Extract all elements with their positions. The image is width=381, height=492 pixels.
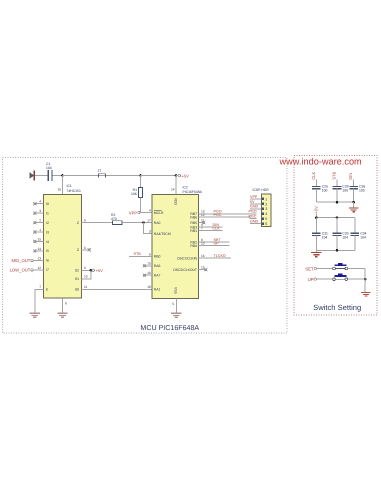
svg-text:12: 12 (201, 213, 205, 217)
wire +5V to top rail (315, 214, 317, 218)
svg-text:104: 104 (360, 236, 366, 240)
svg-text:R1: R1 (133, 188, 137, 192)
svg-text:12: 12 (37, 266, 41, 270)
svg-text:RB5: RB5 (190, 221, 197, 225)
IC1 input pin I4 stub + no-connect (33, 237, 43, 243)
svg-text:RB6: RB6 (190, 216, 197, 220)
svg-text:5: 5 (265, 217, 267, 221)
wire R2 to PIC RA0 node (122, 222, 152, 224)
power terminal VCC arrow (30, 171, 35, 181)
svg-text:MCLR: MCLR (154, 211, 164, 215)
svg-text:VPP: VPP (129, 210, 138, 215)
svg-text:I6: I6 (46, 259, 49, 263)
svg-text:ICSP HDR: ICSP HDR (253, 188, 270, 192)
svg-text:I1: I1 (46, 211, 49, 215)
svg-text:VPP: VPP (250, 195, 258, 199)
wire SW1 to right bus (348, 268, 366, 270)
resistor R2 (111, 213, 122, 224)
svg-text:S2: S2 (75, 269, 79, 273)
svg-text:+5V: +5V (313, 206, 318, 214)
svg-text:11: 11 (84, 285, 88, 289)
decoupling top rail (316, 217, 355, 219)
svg-text:RB0: RB0 (154, 255, 161, 259)
svg-text:7: 7 (39, 285, 41, 289)
svg-text:104: 104 (342, 236, 348, 240)
svg-text:14: 14 (37, 247, 41, 251)
wire IC1 pin16 vertical (62, 176, 64, 195)
svg-text:J1: J1 (98, 168, 102, 172)
wire C26 to rail (315, 189, 317, 203)
ground right box bottom (361, 292, 371, 296)
wire IC1 Z to R2 (81, 222, 112, 224)
node junction above IC1 pin16 (61, 174, 64, 177)
switch-setting box dotted border (294, 156, 377, 316)
svg-text:RA0: RA0 (154, 221, 161, 225)
ground right box mid (311, 252, 321, 256)
node junction on rail (336, 201, 339, 204)
svg-text:104: 104 (322, 236, 328, 240)
svg-text:5: 5 (172, 302, 174, 306)
PIC pin OSC2 stub + no-connect (199, 266, 208, 272)
wire rail to ground (353, 202, 355, 207)
svg-text:RA4/T0CKI: RA4/T0CKI (154, 232, 171, 236)
wire bottom rail to ground (315, 250, 317, 252)
svg-text:5: 5 (84, 219, 86, 223)
wire IC1 S0 to PIC RA1 (81, 288, 152, 290)
svg-text:PGC: PGC (214, 213, 222, 217)
svg-text:74HC151: 74HC151 (67, 189, 81, 193)
terminal UP (308, 277, 333, 282)
svg-text:4: 4 (39, 200, 41, 204)
svg-text:RA6: RA6 (154, 264, 161, 268)
ground under PIC pin5 (171, 313, 181, 317)
svg-text:100: 100 (359, 189, 365, 193)
svg-text:2: 2 (39, 219, 41, 223)
wire DIN to C36 (353, 180, 355, 187)
ground under E wire (30, 313, 40, 317)
wire IC1 pin8 to ground (63, 298, 68, 313)
svg-text:MCU PIC16F648A: MCU PIC16F648A (140, 324, 199, 332)
svg-text:3: 3 (149, 230, 151, 234)
svg-text:RB4: RB4 (190, 244, 197, 248)
svg-text:Switch Setting: Switch Setting (313, 303, 361, 312)
node junction buttons bus (364, 278, 367, 281)
svg-text:S0: S0 (75, 288, 79, 292)
svg-text:Z: Z (77, 221, 79, 225)
wire R1 to VPP node (141, 198, 152, 213)
svg-text:10: 10 (201, 242, 205, 246)
capacitor C28 (333, 185, 349, 193)
svg-text:IC2: IC2 (183, 186, 188, 190)
push button SW1 SET (333, 263, 348, 270)
svg-text:STB: STB (331, 171, 336, 179)
svg-text:5V: 5V (250, 200, 255, 204)
svg-text:SET: SET (305, 266, 314, 271)
terminal SET (305, 266, 333, 271)
wire C36 to rail (353, 189, 355, 203)
node junction above R1 (139, 174, 142, 177)
svg-text:IC1: IC1 (67, 184, 72, 188)
node junction rail right (352, 201, 355, 204)
wire PIC RB4 UP stub (199, 242, 230, 246)
svg-text:104: 104 (46, 166, 52, 170)
svg-text:PGC: PGC (249, 215, 257, 219)
wire PIC RB1 CLK stub (199, 227, 223, 231)
connector row3 GND stub (250, 205, 262, 209)
IC1 pin Z-bar stub + no-connect (81, 246, 91, 252)
svg-text:15: 15 (37, 237, 41, 241)
svg-text:RB1: RB1 (190, 229, 197, 233)
wire VDD vertical to PIC pin14 (175, 176, 177, 195)
wire PIC pin5 VSS to ground (172, 299, 176, 313)
svg-text:GND: GND (250, 220, 259, 224)
node junction top rail left (315, 216, 318, 219)
IC1 input pin I0 stub + no-connect (33, 200, 43, 206)
IC1 input pin I1 stub + no-connect (33, 209, 43, 215)
capacitor C34 (351, 218, 367, 251)
svg-text:PIC16F648A: PIC16F648A (183, 190, 203, 194)
wire PIC RB7 PGD to connector row4 (199, 210, 257, 214)
svg-text:2: 2 (265, 202, 267, 206)
PIC pin RA7 stub + no-connect (143, 271, 152, 277)
svg-text:15: 15 (147, 262, 151, 266)
main schematic dotted border (3, 158, 288, 334)
capacitor C36 (349, 185, 365, 193)
svg-text:VSS: VSS (174, 287, 178, 295)
wire SW2 to right bus (348, 278, 366, 280)
svg-text:MID_OUT: MID_OUT (11, 258, 30, 263)
terminal MID_OUT to IC1 pin I6 (11, 256, 43, 263)
wire bus down to ground (364, 269, 366, 292)
svg-text:100: 100 (342, 189, 348, 193)
svg-text:16: 16 (147, 271, 151, 275)
svg-text:S1: S1 (75, 277, 79, 281)
svg-text:100: 100 (322, 189, 328, 193)
svg-text:7: 7 (201, 227, 203, 231)
svg-text:+5V: +5V (182, 173, 190, 178)
wire IC1 pin E to ground (35, 285, 44, 313)
svg-text:OSC1/CLKIN: OSC1/CLKIN (177, 257, 198, 261)
+5V terminal circle (178, 174, 180, 176)
svg-text:10K: 10K (131, 192, 138, 196)
wire C28 to rail (336, 189, 338, 203)
wire PIC RB6 PGC to connector row5 (199, 213, 257, 219)
wire PIC RB2 SET stub (199, 238, 230, 242)
svg-text:DIN: DIN (348, 173, 353, 180)
resistor R1 (131, 187, 143, 197)
svg-text:14: 14 (171, 187, 175, 191)
svg-text:1: 1 (39, 228, 41, 232)
svg-text:VDD: VDD (174, 198, 178, 206)
VPP terminal circle (138, 211, 140, 213)
wire junction to +5V corner (141, 175, 176, 177)
connector J1 ICSP header body (253, 188, 271, 227)
svg-text:PGD: PGD (249, 210, 257, 214)
svg-text:16: 16 (201, 254, 205, 258)
node junction at RA0 (142, 221, 145, 224)
wire PIC OSC1 T1CKO stub (199, 254, 231, 258)
node junction top rail mid (336, 216, 339, 219)
svg-text:RA1: RA1 (154, 288, 161, 292)
connector row2 VDD stub (250, 200, 262, 204)
wire stub to +5V terminal (176, 175, 178, 177)
svg-text:11: 11 (201, 219, 205, 223)
svg-text:UP: UP (308, 277, 314, 282)
wire node down to RA4 pin (144, 223, 153, 234)
IC1 input pin I3 stub + no-connect (33, 228, 43, 234)
svg-text:10: 10 (84, 275, 88, 279)
decoupling bottom rail (316, 249, 355, 251)
svg-text:I2: I2 (46, 221, 49, 225)
svg-text:I5: I5 (46, 249, 49, 253)
wire rail to R1 vertical (140, 176, 142, 188)
+5V terminal circle at S2 (92, 269, 94, 271)
svg-text:470: 470 (111, 217, 117, 221)
op IC1 74HC151 body (44, 184, 82, 298)
svg-text:3: 3 (265, 207, 267, 211)
svg-text:6: 6 (265, 222, 267, 226)
svg-text:17: 17 (147, 219, 151, 223)
PIC inside right labels (173, 212, 197, 272)
PIC inside left labels (154, 211, 171, 292)
svg-text:www.indo-ware.com: www.indo-ware.com (279, 156, 363, 166)
svg-text:15: 15 (201, 266, 205, 270)
node junction S2/S1 (90, 269, 93, 272)
svg-text:STB: STB (134, 252, 142, 256)
svg-text:4: 4 (265, 212, 267, 216)
IC1 inside pin labels (46, 202, 79, 292)
svg-text:CLK: CLK (213, 227, 221, 231)
wire PIC RB3 DIN stub (199, 223, 223, 227)
connector pin rows (265, 197, 267, 226)
svg-text:1: 1 (265, 197, 267, 201)
PIC pin RA6 stub + no-connect (143, 262, 152, 268)
jumper J1 (98, 168, 106, 177)
node junction at VDD drop (175, 174, 178, 177)
wire CLK to C26 (315, 180, 317, 187)
svg-text:9: 9 (84, 266, 86, 270)
svg-text:UP: UP (214, 242, 220, 246)
MCLR overbar (154, 210, 162, 212)
push button SW2 UP (333, 274, 348, 281)
svg-text:3: 3 (39, 209, 41, 213)
svg-text:T1CKO: T1CKO (214, 254, 226, 258)
ground right box top (349, 208, 359, 212)
wire C1 to junction (53, 175, 63, 177)
wire STB to C28 (336, 180, 338, 187)
node junction bottom rail mid (336, 249, 339, 252)
capacitor C26 (312, 185, 328, 193)
wire IC1 S2 to +5V terminal (81, 269, 91, 271)
IC1 input pin I2 stub + no-connect (33, 219, 43, 225)
svg-text:I0: I0 (46, 202, 49, 206)
svg-text:16: 16 (57, 187, 61, 191)
wire PIC RB0 STB stub (129, 252, 152, 256)
capacitor C33 (333, 218, 349, 251)
cap ground rail (316, 201, 353, 203)
svg-text:4: 4 (149, 208, 151, 212)
svg-text:CLK: CLK (311, 171, 316, 179)
svg-text:I3: I3 (46, 230, 49, 234)
svg-text:+5V: +5V (96, 268, 104, 273)
wire IC1 S1 up to S2 net (81, 270, 90, 279)
svg-text:I4: I4 (46, 240, 49, 244)
svg-text:LOW_OUT: LOW_OUT (10, 268, 31, 273)
terminal LOW_OUT to IC1 pin I7 (10, 266, 44, 273)
wire rail from VCC to C1 (35, 175, 48, 177)
svg-text:OSC2/CLKOUT: OSC2/CLKOUT (173, 268, 197, 272)
op IC2 PIC16F648A body (152, 186, 203, 299)
connector row1 VPP stub (250, 195, 262, 199)
svg-text:I7: I7 (46, 268, 49, 272)
PIC pin RB5 stub + no-connect (199, 219, 206, 225)
capacitor C1 (46, 162, 52, 181)
svg-text:18: 18 (147, 285, 151, 289)
svg-text:6: 6 (84, 246, 86, 250)
svg-text:6: 6 (149, 252, 151, 256)
svg-text:RA7: RA7 (154, 274, 161, 278)
svg-text:GND: GND (250, 205, 259, 209)
svg-text:13: 13 (37, 256, 41, 260)
ground under IC1 pin8 (57, 313, 67, 317)
IC1 input pin I5 stub + no-connect (33, 247, 43, 253)
svg-text:Z: Z (77, 248, 79, 252)
wire junction to junction above R1 (63, 175, 141, 177)
connector row6 GND stub (250, 220, 262, 224)
svg-text:8: 8 (65, 302, 67, 306)
capacitor C31 (312, 218, 328, 251)
